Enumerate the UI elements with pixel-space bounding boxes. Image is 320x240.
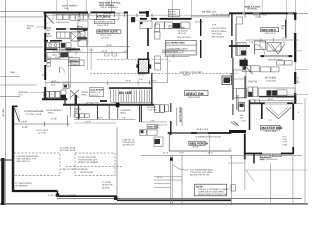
pantry door diagonal	[246, 67, 253, 75]
top wall window thin line	[44, 14, 192, 16]
porch post line	[209, 133, 211, 155]
master right wall	[292, 104, 294, 120]
svg-text:4x12 BM + CLG LINE: 4x12 BM + CLG LINE	[180, 71, 203, 74]
svg-text:SHELVES: SHELVES	[19, 91, 29, 94]
svg-text:5'-0": 5'-0"	[52, 80, 57, 83]
svg-text:OPEN: OPEN	[82, 91, 89, 94]
svg-text:21'-0": 21'-0"	[21, 121, 27, 124]
svg-text:4": 4"	[229, 156, 231, 159]
island	[222, 76, 232, 85]
master hall wall	[249, 100, 251, 130]
left margin garage text	[2, 109, 5, 118]
stairs top bar	[109, 87, 153, 89]
svg-text:DN 16R: DN 16R	[119, 91, 132, 95]
svg-text:SH: SH	[281, 27, 284, 30]
hall small boxes	[47, 60, 51, 63]
toilet	[61, 43, 66, 48]
extension line top x172	[172, 0, 174, 18]
svg-text:LIN: LIN	[46, 33, 50, 36]
svg-text:MASTER SUITE: MASTER SUITE	[98, 31, 118, 34]
svg-text:SLAB TYP: SLAB TYP	[102, 184, 113, 187]
svg-text:TILE FLR: TILE FLR	[148, 109, 157, 112]
garage right line	[116, 128, 118, 197]
dimension line left y85	[0, 84, 37, 86]
svg-text:7'-8": 7'-8"	[281, 41, 285, 44]
svg-text:SLOPE TYP AT 1/4": SLOPE TYP AT 1/4"	[190, 174, 210, 177]
master bed column	[261, 103, 263, 119]
svg-text:11'-0": 11'-0"	[282, 37, 288, 40]
svg-text:19-0 x 24-8: 19-0 x 24-8	[188, 96, 200, 99]
svg-text:RAIL: RAIL	[82, 94, 88, 97]
svg-text:W/D: W/D	[27, 27, 32, 30]
bed rm 2 label	[261, 28, 279, 32]
border bottom edge	[0, 203, 308, 204]
linen boxed label	[71, 60, 84, 66]
svg-text:TYP. UNO: TYP. UNO	[212, 33, 222, 36]
master bedroom top wall	[250, 102, 265, 104]
bdrm2 wall right	[285, 20, 287, 38]
closet vline pair	[235, 95, 237, 110]
garage bottom wall	[12, 190, 58, 192]
great room dim row y52	[60, 48, 76, 51]
wall tick marks below top wall	[80, 14, 287, 20]
garage dimension line	[14, 123, 70, 125]
dim line y46.6	[89, 46, 130, 48]
svg-text:4'-6": 4'-6"	[83, 13, 87, 16]
bonus room dashed rect right	[75, 153, 115, 176]
svg-text:6'-2": 6'-2"	[180, 152, 185, 155]
kitchen east cabinet row	[140, 21, 152, 28]
master L wall	[229, 130, 246, 133]
garage left wall	[12, 106, 14, 192]
hall door arc	[59, 67, 61, 72]
kitchen west wall	[232, 58, 234, 100]
svg-text:TILE: TILE	[51, 83, 56, 86]
svg-text:WALL: WALL	[120, 112, 127, 115]
svg-text:10-0x10-0: 10-0x10-0	[178, 29, 189, 32]
window label vertical	[284, 20, 287, 29]
svg-text:12-4 x 16-0: 12-4 x 16-0	[265, 130, 277, 133]
svg-text:ABOVE: ABOVE	[183, 74, 191, 77]
svg-text:W/ R-21 INSUL: W/ R-21 INSUL	[212, 30, 228, 33]
svg-text:23'-1": 23'-1"	[208, 152, 214, 155]
svg-text:RISER 7.5": RISER 7.5"	[90, 91, 101, 94]
bath2 south wall double line	[261, 54, 293, 56]
svg-text:BED RM 2: BED RM 2	[262, 28, 277, 32]
svg-text:BEARING: BEARING	[247, 8, 258, 11]
dim line y40	[246, 39, 299, 41]
nook desk builtins	[165, 41, 196, 55]
extension line top x111	[111, 0, 113, 13]
bottom right post	[253, 154, 255, 163]
stair treads	[111, 90, 153, 103]
svg-text:3'-6": 3'-6"	[76, 117, 81, 120]
laundry appliance boxes	[75, 114, 80, 118]
svg-text:LAUNDRY: LAUNDRY	[120, 109, 131, 112]
svg-text:USE ALL IF POSSIBLE LUMBER: USE ALL IF POSSIBLE LUMBER	[198, 188, 229, 191]
powder band dim line	[74, 118, 136, 120]
svg-text:PNTRY: PNTRY	[249, 81, 258, 84]
svg-text:TYP: TYP	[212, 24, 217, 27]
door swing top-left	[46, 15, 54, 23]
svg-text:10x8: 10x8	[64, 7, 70, 10]
stair hatch master	[231, 121, 239, 126]
dimension line top-left y11	[0, 10, 44, 12]
svg-text:SHLV: SHLV	[46, 35, 52, 38]
mud room bottom wall	[42, 98, 67, 100]
svg-text:9 x 10: 9 x 10	[193, 146, 200, 149]
svg-text:SUPPLIER AT CODE SPEC: SUPPLIER AT CODE SPEC	[198, 191, 225, 194]
kitchen north counter	[243, 61, 292, 72]
svg-text:COVERED PORCH SLAB: COVERED PORCH SLAB	[195, 135, 221, 138]
svg-text:2668: 2668	[10, 71, 16, 74]
kitchen row label	[94, 19, 115, 23]
right wall x295	[294, 13, 296, 104]
DN 16R label	[119, 90, 131, 94]
svg-text:6'-0": 6'-0"	[53, 13, 57, 16]
note box	[195, 184, 227, 196]
right edge stub lines	[295, 50, 302, 52]
svg-text:CLG AT BAY: CLG AT BAY	[123, 141, 136, 144]
dashed ceiling line	[90, 73, 238, 75]
svg-text:9'-2": 9'-2"	[77, 50, 82, 53]
svg-text:LINE OF 12': LINE OF 12'	[123, 139, 136, 142]
hall closet boxes	[57, 15, 63, 20]
wc fixtures	[239, 103, 245, 112]
svg-text:4'x2' WORK AREA: 4'x2' WORK AREA	[166, 41, 185, 44]
svg-text:VERIFY PRECUT STUDS TYP: VERIFY PRECUT STUDS TYP	[198, 193, 227, 196]
interior wall x148	[147, 12, 150, 60]
svg-text:3'-2": 3'-2"	[68, 56, 73, 59]
kitchen sink boxes above master wall	[276, 95, 284, 98]
svg-text:SEE SHT A-4: SEE SHT A-4	[17, 160, 31, 163]
svg-text:ABV 2x6 WALL TYP: ABV 2x6 WALL TYP	[17, 157, 37, 160]
svg-text:BBQ PORCH: BBQ PORCH	[190, 142, 208, 146]
svg-text:4'-4": 4'-4"	[262, 41, 266, 44]
double door chevron	[271, 44, 278, 54]
svg-text:AT GARAGE: AT GARAGE	[15, 185, 28, 188]
svg-text:9'-4": 9'-4"	[155, 124, 160, 127]
svg-text:11-0 x 11-6: 11-0 x 11-6	[265, 32, 277, 35]
svg-text:CLG: CLG	[155, 127, 160, 130]
nook cabinets	[156, 22, 191, 29]
svg-text:3 CAR GARAGE: 3 CAR GARAGE	[24, 110, 44, 113]
svg-text:27x10 CLR OPNG: 27x10 CLR OPNG	[78, 156, 96, 159]
svg-text:12-0x14-6: 12-0x14-6	[266, 79, 277, 82]
closet boxes mid-left	[47, 53, 60, 59]
stair bottom line	[111, 101, 153, 103]
svg-text:10' CLG: 10' CLG	[178, 32, 186, 35]
svg-text:12-0: 12-0	[138, 78, 143, 81]
svg-text:SEE NOTES: SEE NOTES	[212, 35, 225, 38]
bath west wall pair	[139, 105, 141, 122]
svg-text:SLOPE: SLOPE	[102, 186, 110, 189]
leader to sheathing note	[173, 165, 189, 170]
master labels	[261, 125, 281, 130]
svg-text:TRD 10": TRD 10"	[90, 94, 98, 97]
bath mid wall	[44, 40, 48, 42]
svg-text:9'-0": 9'-0"	[283, 136, 287, 139]
svg-text:MASTER BED: MASTER BED	[262, 126, 284, 130]
svg-text:(TYP): (TYP)	[255, 16, 261, 19]
svg-text:BATH 5-0x8: BATH 5-0x8	[56, 21, 69, 24]
mbath dim line	[154, 124, 167, 126]
svg-text:VERIFY W/ OWNER: VERIFY W/ OWNER	[78, 161, 99, 164]
extension line top x84	[85, 0, 87, 13]
dimension line left y47	[0, 46, 44, 48]
dimension line y82.8	[45, 82, 167, 84]
sliding door vertical label	[178, 107, 181, 123]
svg-text:16070 OH DR: 16070 OH DR	[80, 171, 94, 174]
svg-text:KITCHEN: KITCHEN	[265, 77, 277, 80]
svg-text:TILE: TILE	[168, 27, 173, 30]
dimension line top-right stub	[297, 13, 308, 15]
svg-text:21'-3": 21'-3"	[163, 152, 169, 155]
svg-text:13-9 x 11-9: 13-9 x 11-9	[197, 128, 209, 131]
svg-text:U.N.O. 2x6 WALL: U.N.O. 2x6 WALL	[100, 6, 119, 9]
svg-text:8'-6": 8'-6"	[67, 50, 72, 53]
svg-text:SLOPE 1/4": SLOPE 1/4"	[123, 144, 135, 147]
svg-text:8'-2": 8'-2"	[69, 13, 73, 16]
svg-text:PWDR: PWDR	[74, 108, 81, 111]
top wall right section	[229, 12, 297, 14]
jog wall	[64, 99, 66, 106]
svg-text:TYP AT ALL EXT WALL: TYP AT ALL EXT WALL	[190, 171, 214, 174]
svg-text:BROOM: BROOM	[229, 73, 232, 81]
svg-text:42" RAIL TYP: 42" RAIL TYP	[86, 101, 99, 104]
interior wall x127	[126, 14, 128, 59]
porch south edge	[169, 150, 231, 152]
great room label	[185, 91, 208, 96]
nook side boxes	[155, 24, 160, 32]
svg-text:4'-0": 4'-0"	[152, 79, 157, 82]
furnace vlines	[70, 106, 72, 118]
garage left edge bar	[1, 158, 4, 205]
svg-text:5050 SH: 5050 SH	[284, 20, 287, 29]
bath south wall	[44, 48, 58, 50]
svg-text:UNO: UNO	[283, 143, 288, 146]
top wall left section	[44, 12, 150, 14]
bath north wall	[56, 28, 66, 30]
svg-text:12'-6": 12'-6"	[157, 176, 163, 179]
nook wall	[200, 19, 202, 36]
svg-text:16'-8": 16'-8"	[106, 44, 112, 47]
washer dryer boxes	[44, 91, 49, 97]
svg-text:18'-0 x 36'-0: 18'-0 x 36'-0	[36, 129, 49, 132]
hall vline upper	[87, 29, 89, 48]
porch top wall	[168, 132, 232, 134]
svg-text:SEE INT ELEV: SEE INT ELEV	[177, 36, 192, 39]
hall double line	[68, 60, 70, 89]
svg-text:1/2" SHEATHING WALL: 1/2" SHEATHING WALL	[190, 168, 214, 171]
svg-text:WINDOW SEAT: WINDOW SEAT	[163, 50, 179, 53]
left fixture column	[77, 26, 82, 31]
svg-text:16080 SLIDING DR: 16080 SLIDING DR	[259, 158, 278, 161]
svg-text:3080 OH: 3080 OH	[2, 109, 5, 118]
svg-text:10' CLG: 10' CLG	[101, 37, 109, 40]
svg-text:BRACE: BRACE	[169, 13, 177, 16]
vanity	[46, 43, 60, 48]
svg-text:23'-5": 23'-5"	[125, 80, 131, 83]
right edge vertical dim text	[296, 77, 299, 83]
sliding door panels	[261, 155, 271, 158]
svg-text:5 1/2 x 11 1/4 GLULAM HDR: 5 1/2 x 11 1/4 GLULAM HDR	[48, 194, 76, 197]
svg-text:5'-0": 5'-0"	[60, 56, 65, 59]
svg-text:5'-0": 5'-0"	[124, 50, 129, 53]
dashed slab line	[66, 166, 122, 168]
svg-text:10' CLG: 10' CLG	[195, 21, 203, 24]
svg-text:R.O.: R.O.	[19, 94, 24, 97]
porch slab edge	[57, 197, 302, 199]
dimension line left y96	[0, 96, 20, 98]
pantry vertical text	[229, 73, 232, 81]
closet shelves bdrm2	[237, 43, 246, 56]
bdrm2 closet	[236, 17, 242, 24]
svg-text:16080 SL.DR.: 16080 SL.DR.	[178, 107, 181, 123]
left wall x45	[44, 12, 46, 101]
powder band wall stubs	[78, 105, 80, 120]
bonus room dashed rect left	[14, 153, 60, 176]
svg-text:12'-6": 12'-6"	[296, 77, 299, 83]
svg-text:NOTE:: NOTE:	[196, 185, 203, 188]
svg-text:4" CONC: 4" CONC	[102, 181, 111, 184]
svg-text:W CONC SLAB: W CONC SLAB	[60, 149, 76, 152]
nook dim	[162, 50, 183, 53]
svg-text:LINE OF 2ND FLR ABOVE: LINE OF 2ND FLR ABOVE	[62, 168, 89, 171]
svg-text:4" CONC. SLAB: 4" CONC. SLAB	[26, 113, 42, 116]
svg-text:SHLVS: SHLVS	[72, 63, 79, 66]
extension line top x191	[191, 0, 193, 18]
left margin line	[5, 0, 7, 205]
pantry	[244, 58, 246, 70]
dimension line left y76	[0, 76, 20, 78]
door arc bdrm2	[255, 45, 265, 55]
top wall mid lowered section	[140, 18, 192, 20]
mbath fixtures	[155, 105, 160, 113]
svg-text:CLG: CLG	[283, 138, 288, 141]
svg-text:2x6 PLUMB WALL: 2x6 PLUMB WALL	[212, 14, 232, 17]
svg-text:10-6 x 12-0: 10-6 x 12-0	[97, 24, 109, 27]
stair rail X	[70, 90, 79, 98]
dashed ceiling line y59	[44, 58, 70, 60]
svg-text:GREAT RM: GREAT RM	[186, 92, 204, 96]
top cabinets row kitchen	[78, 13, 119, 28]
svg-text:4x8 HDR. O.H.: 4x8 HDR. O.H.	[202, 11, 218, 14]
svg-text:7'-6": 7'-6"	[122, 117, 127, 120]
svg-text:5050 SH TEMP: 5050 SH TEMP	[268, 58, 283, 61]
dining room boxed label	[97, 30, 121, 33]
svg-text:9'-0": 9'-0"	[98, 117, 103, 120]
kitchen south counter	[259, 88, 295, 96]
svg-text:WALL: WALL	[48, 111, 55, 114]
svg-text:PKT: PKT	[46, 29, 51, 32]
hall wall y46	[229, 45, 250, 47]
bed rm 2 west wall	[231, 14, 233, 36]
svg-text:4'-10": 4'-10"	[51, 118, 57, 121]
svg-text:KITCHEN: KITCHEN	[97, 14, 110, 18]
svg-text:TYP: TYP	[283, 141, 288, 144]
svg-text:NOOK: NOOK	[178, 27, 185, 30]
svg-text:2x6 EXT WALL: 2x6 EXT WALL	[212, 27, 228, 30]
svg-text:ROOF: ROOF	[169, 10, 176, 13]
hall vlines	[87, 48, 89, 70]
boxes above master wall	[250, 100, 255, 104]
mud bench boxes	[68, 58, 79, 62]
svg-text:5'-0": 5'-0"	[250, 41, 254, 44]
svg-text:9'-10": 9'-10"	[22, 126, 28, 129]
master bottom wall	[244, 153, 262, 155]
svg-text:12'-0": 12'-0"	[53, 50, 59, 53]
svg-text:18x18: 18x18	[168, 24, 175, 27]
svg-text:FUTURE BONUS RM: FUTURE BONUS RM	[17, 155, 38, 158]
svg-text:2x12 STRGR: 2x12 STRGR	[90, 89, 104, 92]
svg-text:19'-10": 19'-10"	[101, 50, 108, 53]
svg-text:COVERED DECK: COVERED DECK	[96, 21, 114, 24]
svg-text:FOR FUTURE LIFT: FOR FUTURE LIFT	[78, 158, 98, 161]
svg-text:5'-0": 5'-0"	[242, 119, 246, 122]
left bottom dim lines	[154, 176, 182, 178]
dimension line top-left y17	[0, 16, 44, 18]
bath fixtures top	[267, 43, 281, 52]
stair bottom wall	[63, 104, 154, 106]
svg-text:7'-6": 7'-6"	[268, 119, 272, 122]
stair bottom dark marks	[100, 100, 107, 102]
shower box	[56, 32, 70, 38]
tub box	[71, 32, 80, 41]
garage door swing	[14, 107, 20, 122]
svg-text:4" CONC SLAB: 4" CONC SLAB	[60, 147, 76, 150]
svg-text:12' CLG: 12' CLG	[38, 131, 46, 134]
svg-text:W.C.: W.C.	[240, 117, 245, 120]
mbath wall	[170, 121, 172, 135]
right margin line	[304, 98, 306, 205]
ceiling chevron	[266, 108, 279, 119]
bottom dimension strings	[141, 154, 302, 156]
svg-text:STACK: STACK	[27, 24, 35, 27]
stair texts	[90, 88, 104, 97]
top wall window band mid-right	[192, 14, 230, 16]
